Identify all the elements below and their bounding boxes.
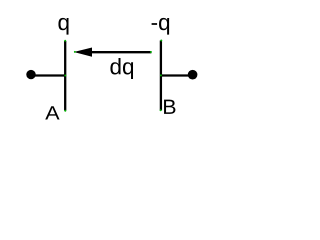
anchor dot (plate A bottom)	[64, 110, 66, 112]
anchor dot (plate B top)	[160, 40, 162, 42]
anchor dot (plate A top)	[64, 40, 66, 42]
arrow dq (head pointing left)	[74, 48, 92, 57]
plate A (left vertical plate)	[64, 41, 66, 111]
terminal dot (right)	[188, 70, 198, 80]
label B (plate B name)	[164, 100, 175, 114]
anchor dot (arrow tail)	[150, 51, 152, 53]
plate B (right vertical plate)	[160, 41, 162, 111]
wire (left lead to plate A)	[32, 74, 66, 76]
anchor dot (plate A / wire junction)	[64, 75, 66, 77]
terminal dot (left)	[26, 70, 35, 79]
arrow dq (shaft from plate B toward plate A)	[91, 51, 151, 53]
label q (charge on plate A)	[58, 18, 68, 35]
anchor dot (plate B / wire junction)	[160, 74, 162, 76]
label dq (arrow label)	[110, 58, 133, 79]
anchor dot (plate B bottom)	[160, 109, 162, 111]
label A (plate A name)	[45, 106, 59, 119]
wire (right lead from plate B)	[161, 74, 193, 76]
label -q (charge on plate B)	[152, 18, 170, 35]
anchor dot (arrow tip)	[74, 51, 76, 53]
